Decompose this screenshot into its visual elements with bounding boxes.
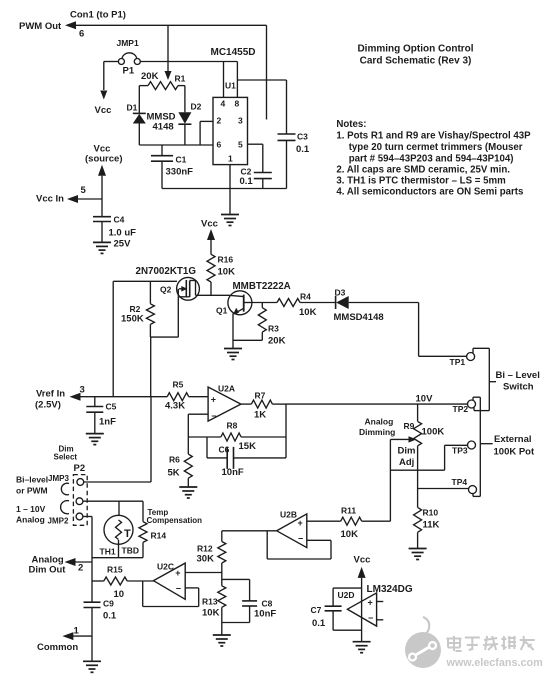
svg-text:Vcc: Vcc xyxy=(201,219,218,230)
svg-text:C7: C7 xyxy=(311,605,322,615)
svg-text:1 – 10V: 1 – 10V xyxy=(16,504,46,514)
svg-text:−: − xyxy=(368,613,373,623)
svg-text:1. Pots R1 and R9 are Vishay/S: 1. Pots R1 and R9 are Vishay/Spectrol 43… xyxy=(336,131,531,142)
svg-text:Dimming: Dimming xyxy=(359,427,395,437)
wire Vcc through U2D xyxy=(361,588,363,642)
ground Common xyxy=(83,661,101,672)
svg-text:R3: R3 xyxy=(268,324,279,334)
svg-text:10nF: 10nF xyxy=(222,467,244,478)
svg-text:15K: 15K xyxy=(239,441,257,452)
svg-text:R10: R10 xyxy=(423,508,439,518)
svg-text:2: 2 xyxy=(78,563,83,574)
wire R2 to Vref xyxy=(150,337,152,397)
op-amp U2A xyxy=(208,384,241,422)
svg-text:P1: P1 xyxy=(123,66,135,77)
svg-text:10nF: 10nF xyxy=(254,609,276,620)
wire 10V line xyxy=(286,394,468,405)
test point TP3 xyxy=(452,441,476,456)
svg-text:D2: D2 xyxy=(191,102,202,112)
label Temp Compensation xyxy=(147,508,203,525)
wire Q1 emitter xyxy=(232,314,234,349)
svg-text:or PWM: or PWM xyxy=(16,486,48,496)
resistor R15 xyxy=(92,565,154,601)
svg-text:R16: R16 xyxy=(218,255,234,265)
test point TP2 xyxy=(453,400,476,414)
resistor R10 xyxy=(414,489,440,549)
svg-text:5: 5 xyxy=(81,185,87,196)
label notes xyxy=(336,119,531,198)
svg-text:20K: 20K xyxy=(141,71,159,82)
svg-text:Compensation: Compensation xyxy=(147,516,203,525)
svg-text:External: External xyxy=(494,434,532,445)
resistor R8 xyxy=(221,421,256,453)
svg-text:+: + xyxy=(211,394,216,404)
svg-text:Dim Out: Dim Out xyxy=(29,564,67,575)
wire R1 right leg xyxy=(184,86,186,113)
label Bi-Level Switch xyxy=(496,370,540,393)
svg-text:4.3K: 4.3K xyxy=(165,401,185,412)
power Vcc source xyxy=(85,144,122,200)
wire pin8 branch xyxy=(237,80,286,134)
svg-text:Bi – Level: Bi – Level xyxy=(496,370,540,381)
diode D2 xyxy=(178,102,201,146)
capacitor C5 xyxy=(86,397,116,434)
label External 100K Pot xyxy=(494,434,535,458)
svg-text:TP1: TP1 xyxy=(450,357,466,367)
capacitor C1 xyxy=(151,145,193,189)
svg-text:R9: R9 xyxy=(404,421,415,431)
svg-text:2: 2 xyxy=(217,116,222,126)
svg-text:11K: 11K xyxy=(423,520,440,531)
svg-text:Switch: Switch xyxy=(503,382,534,393)
svg-text:R8: R8 xyxy=(227,421,238,431)
wire R9 to TP4 xyxy=(417,446,419,489)
svg-text:Vcc In: Vcc In xyxy=(36,194,64,205)
svg-text:1nF: 1nF xyxy=(99,417,116,428)
svg-text:1: 1 xyxy=(228,154,233,164)
resistor R7 xyxy=(241,390,286,420)
svg-text:1: 1 xyxy=(74,626,80,637)
wire U2B feedback xyxy=(267,531,331,559)
wire temp comp bottom xyxy=(92,557,143,559)
svg-text:0.1: 0.1 xyxy=(240,176,254,187)
wire pin2 line xyxy=(83,500,143,502)
svg-text:R7: R7 xyxy=(255,390,266,400)
resistor R16 xyxy=(207,254,235,295)
ground C4 xyxy=(93,242,111,253)
svg-text:TBD: TBD xyxy=(122,546,139,556)
svg-text:−: − xyxy=(176,584,181,594)
svg-text:+: + xyxy=(175,568,180,578)
svg-text:P2: P2 xyxy=(74,463,86,474)
svg-text:3. TH1 is PTC thermistor – LS: 3. TH1 is PTC thermistor – LS = 5mm xyxy=(336,176,506,187)
svg-text:Vcc: Vcc xyxy=(95,105,112,116)
jumper JMP1 xyxy=(117,38,141,77)
svg-text:C3: C3 xyxy=(297,132,308,142)
wire wiper down xyxy=(389,439,391,521)
svg-text:Adj: Adj xyxy=(399,457,414,468)
capacitor C2 xyxy=(240,167,272,189)
svg-text:20K: 20K xyxy=(268,336,286,347)
svg-text:R6: R6 xyxy=(169,455,180,465)
svg-text:TH1: TH1 xyxy=(100,547,116,557)
svg-text:C5: C5 xyxy=(106,402,117,412)
switch bracket Bi-Level xyxy=(473,348,496,410)
Analog Dim Out pin 2 xyxy=(29,555,93,576)
transistor Q1 xyxy=(216,281,291,316)
wire pin3 line xyxy=(83,517,92,603)
svg-text:1.0 uF: 1.0 uF xyxy=(109,228,137,239)
svg-text:www.elecfans.com: www.elecfans.com xyxy=(446,657,543,669)
svg-text:4: 4 xyxy=(221,99,226,109)
svg-text:Vref In: Vref In xyxy=(36,389,65,400)
svg-text:Q1: Q1 xyxy=(216,306,228,316)
op-amp U2D xyxy=(338,584,413,626)
svg-text:5: 5 xyxy=(238,140,243,150)
svg-text:JMP3: JMP3 xyxy=(48,474,69,483)
svg-text:C8: C8 xyxy=(262,599,273,609)
wire Vref line xyxy=(81,396,209,398)
label title xyxy=(357,44,473,67)
wire TP3 route xyxy=(390,445,467,470)
wire D3 to TP1 xyxy=(349,303,467,357)
svg-text:R2: R2 xyxy=(130,304,141,314)
svg-text:2N7002KT1G: 2N7002KT1G xyxy=(136,266,197,277)
thermistor TH1 xyxy=(100,501,139,558)
capacitor C9 xyxy=(84,599,117,662)
test point TP1 xyxy=(450,353,475,368)
wire Q2 source xyxy=(150,297,178,337)
resistor R12 xyxy=(197,531,226,573)
wire R7 R8 C6 junction xyxy=(285,404,287,458)
svg-text:10K: 10K xyxy=(299,307,317,318)
PWM Out pin 6 xyxy=(19,21,84,40)
svg-text:LM324DG: LM324DG xyxy=(367,584,413,595)
wire jumper to U1 pins xyxy=(140,62,237,98)
wire pin5 branch xyxy=(248,144,263,172)
Vref In pin 3 xyxy=(35,385,85,411)
svg-text:Q2: Q2 xyxy=(160,285,172,295)
svg-text:Analog: Analog xyxy=(365,417,394,427)
wire R4 to D3 xyxy=(300,302,336,304)
svg-text:Dim: Dim xyxy=(398,446,416,457)
svg-text:6: 6 xyxy=(79,29,84,40)
Common pin 1 xyxy=(37,626,92,654)
resistor R4 xyxy=(277,292,317,319)
svg-text:R5: R5 xyxy=(173,380,184,390)
svg-text:5K: 5K xyxy=(168,468,180,479)
svg-text:D1: D1 xyxy=(127,103,138,113)
svg-text:10V: 10V xyxy=(416,394,434,405)
wire PWM line xyxy=(76,25,267,119)
resistor R2 xyxy=(121,281,154,337)
svg-text:R12: R12 xyxy=(197,544,213,554)
svg-text:C9: C9 xyxy=(103,599,114,609)
svg-text:MC1455D: MC1455D xyxy=(211,47,256,58)
svg-text:Notes:: Notes: xyxy=(336,119,366,130)
svg-text:U2C: U2C xyxy=(157,561,174,571)
svg-text:C2: C2 xyxy=(241,167,252,177)
svg-text:C1: C1 xyxy=(176,155,187,165)
resistor R13 xyxy=(202,573,226,623)
svg-text:TP4: TP4 xyxy=(452,477,468,487)
ground U2D xyxy=(353,642,371,653)
svg-text:JMP1: JMP1 xyxy=(117,38,139,48)
svg-text:JMP2: JMP2 xyxy=(48,517,69,526)
wire U2B output xyxy=(222,530,277,532)
svg-text:2. All caps are SMD ceramic, 2: 2. All caps are SMD ceramic, 25V min. xyxy=(336,165,510,176)
wire ground rail xyxy=(162,188,287,190)
label Bi-level or PWM xyxy=(16,475,48,496)
svg-text:100K: 100K xyxy=(422,427,445,438)
svg-text:U2B: U2B xyxy=(280,510,297,520)
svg-text:10K: 10K xyxy=(202,608,220,619)
svg-text:R1: R1 xyxy=(175,74,186,84)
svg-text:U2D: U2D xyxy=(338,590,355,600)
svg-text:100K Pot: 100K Pot xyxy=(494,447,535,458)
svg-text:part # 594–43P203 and 594–43P1: part # 594–43P203 and 594–43P104) xyxy=(349,153,514,164)
ground U1 xyxy=(221,215,239,226)
Vcc In pin 5 xyxy=(36,185,102,205)
svg-text:C4: C4 xyxy=(114,215,125,225)
svg-text:R13: R13 xyxy=(202,597,218,607)
power Vcc jumper xyxy=(95,105,112,116)
resistor R6 xyxy=(168,437,193,487)
diode D3 xyxy=(334,288,384,324)
resistor R11 xyxy=(307,506,391,541)
svg-text:Dimming Option Control: Dimming Option Control xyxy=(357,44,473,55)
wire pin2 link xyxy=(200,121,213,145)
connector P2 xyxy=(73,463,87,525)
svg-text:4. All semiconductors are ON S: 4. All semiconductors are ON Semi parts xyxy=(336,187,523,198)
node Con1 xyxy=(70,10,126,21)
svg-text:U2A: U2A xyxy=(218,384,235,394)
op-amp U2B xyxy=(277,510,307,548)
svg-text:PWM Out: PWM Out xyxy=(19,21,62,32)
wire Q1 base line xyxy=(252,302,277,304)
wire gate to Vref xyxy=(112,281,114,396)
svg-text:Common: Common xyxy=(37,642,78,653)
watermark url xyxy=(446,657,543,669)
svg-text:10: 10 xyxy=(114,589,125,600)
svg-text:Select: Select xyxy=(54,453,78,462)
resistor R14 xyxy=(139,501,166,558)
bracket External pot xyxy=(473,397,493,496)
potentiometer R9 xyxy=(390,404,444,446)
ground C5 xyxy=(86,434,104,445)
label MMSD 4148 xyxy=(147,112,176,133)
svg-text:10K: 10K xyxy=(341,529,359,540)
svg-text:T: T xyxy=(124,528,131,540)
svg-text:8: 8 xyxy=(235,99,240,109)
svg-text:3: 3 xyxy=(238,116,243,126)
svg-text:R14: R14 xyxy=(151,531,167,541)
svg-text:R15: R15 xyxy=(107,565,123,575)
jumper JMP3 xyxy=(48,474,69,495)
power Vcc U2D xyxy=(354,555,371,589)
IC U1 MC1455D xyxy=(211,47,256,165)
watermark brand glyphs xyxy=(447,636,535,651)
wire Q2 gate xyxy=(113,280,177,282)
test point TP4 xyxy=(452,477,477,494)
svg-text:Con1 (to P1): Con1 (to P1) xyxy=(70,10,126,21)
svg-text:0.1: 0.1 xyxy=(103,611,117,622)
wire R13 ground leg xyxy=(221,623,223,636)
potentiometer R1 xyxy=(139,71,185,90)
svg-text:Bi–level: Bi–level xyxy=(16,475,48,485)
resistor R5 xyxy=(165,380,189,412)
svg-text:+: + xyxy=(298,518,303,528)
svg-text:Card Schematic (Rev 3): Card Schematic (Rev 3) xyxy=(360,56,472,67)
capacitor C7 xyxy=(311,588,362,630)
wire U2C feedback xyxy=(143,581,199,607)
svg-text:25V: 25V xyxy=(114,239,132,250)
wire pin1 drop xyxy=(229,165,231,215)
ground R10 xyxy=(409,549,427,560)
wire feedback line xyxy=(188,436,286,438)
capacitor C3 xyxy=(278,132,310,189)
capacitor C8 xyxy=(222,579,277,622)
wire Q2 drain xyxy=(196,294,230,296)
wire U2A minus xyxy=(188,414,208,437)
wire TP4 line xyxy=(418,488,469,490)
svg-text:−: − xyxy=(211,411,216,421)
power Vcc R16 xyxy=(201,219,218,255)
svg-text:Vcc: Vcc xyxy=(354,555,371,566)
svg-text:150K: 150K xyxy=(121,314,144,325)
wire jumper left xyxy=(100,62,118,100)
svg-text:Analog: Analog xyxy=(16,515,45,525)
capacitor C6 xyxy=(207,437,286,478)
watermark logo xyxy=(405,617,441,668)
svg-text:TP2: TP2 xyxy=(453,404,469,414)
svg-text:330nF: 330nF xyxy=(166,167,194,178)
ground Q1 xyxy=(224,349,242,360)
svg-text:MMSD4148: MMSD4148 xyxy=(334,312,384,323)
label Dim Adj xyxy=(398,446,416,469)
ground R13 xyxy=(213,635,231,646)
svg-text:(source): (source) xyxy=(85,154,122,165)
svg-text:0.1: 0.1 xyxy=(296,144,310,155)
wire U2C plus line xyxy=(185,572,222,574)
label Analog Dimming xyxy=(359,417,395,438)
svg-text:R4: R4 xyxy=(300,292,311,302)
svg-text:0.1: 0.1 xyxy=(312,618,326,629)
svg-text:10K: 10K xyxy=(218,267,236,278)
label 1-10V Analog xyxy=(16,504,46,525)
svg-text:(2.5V): (2.5V) xyxy=(35,400,61,411)
svg-text:R11: R11 xyxy=(341,506,356,516)
wire Vref to P2 pin1 xyxy=(84,397,151,482)
svg-text:type 20 turn cermet trimmers (: type 20 turn cermet trimmers (Mouser xyxy=(349,142,523,153)
svg-text:1K: 1K xyxy=(254,410,266,421)
wire wiper drop xyxy=(165,25,172,80)
svg-text:C6: C6 xyxy=(219,445,230,455)
diode D1 xyxy=(127,103,146,146)
jumper JMP2 xyxy=(48,501,70,526)
wire diode rail xyxy=(139,144,213,146)
svg-text:4148: 4148 xyxy=(153,122,174,133)
capacitor C4 xyxy=(93,199,136,250)
label Dim Select xyxy=(54,445,78,462)
svg-text:6: 6 xyxy=(217,140,222,150)
wire R1 left leg xyxy=(138,86,140,114)
svg-text:3: 3 xyxy=(80,385,85,396)
svg-text:U1: U1 xyxy=(225,81,236,91)
svg-text:+: + xyxy=(368,597,373,607)
svg-text:−: − xyxy=(298,534,303,544)
resistor R3 xyxy=(233,303,286,347)
transistor Q2 xyxy=(136,266,200,300)
ground R6 xyxy=(179,487,197,498)
op-amp U2C xyxy=(154,561,186,599)
svg-text:TP3: TP3 xyxy=(452,446,468,456)
svg-text:30K: 30K xyxy=(197,554,215,565)
